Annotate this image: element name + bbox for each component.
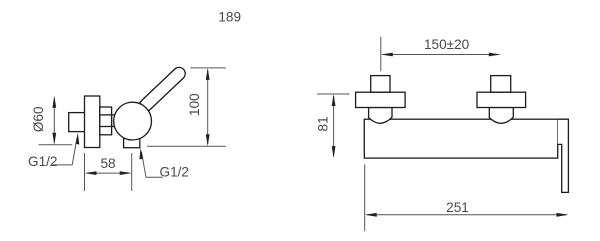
- body bar (front view): [364, 119, 557, 158]
- valve body circle (left view): [114, 102, 152, 140]
- svg-text:150±20: 150±20: [424, 37, 470, 52]
- union nut left (front view): [371, 76, 390, 93]
- svg-text:100: 100: [187, 93, 202, 116]
- connection nut (left view): [100, 107, 115, 135]
- svg-text:Ø60: Ø60: [31, 106, 46, 132]
- dimension 100 (left view height): [147, 68, 226, 146]
- svg-text:G1/2: G1/2: [160, 164, 189, 179]
- inlet union G1/2 (left view): [69, 113, 85, 132]
- end cap and diverter stem (right end): [558, 119, 569, 192]
- union nut right (front view): [491, 76, 511, 93]
- dimension 251 (overall body length): [365, 164, 567, 231]
- lever handle (left view): [137, 65, 188, 114]
- svg-text:58: 58: [100, 156, 115, 171]
- escutcheon right (front view): [477, 92, 526, 107]
- svg-text:G1/2: G1/2: [28, 154, 57, 169]
- wall escutcheon flange (left view): [85, 96, 100, 148]
- svg-text:81: 81: [316, 116, 331, 131]
- outlet stub (left view, bottom G1/2 outlet): [124, 139, 140, 148]
- svg-text:251: 251: [446, 200, 469, 215]
- leader G1/2 left (inlet thread): [53, 138, 78, 165]
- leader G1/2 right (outlet thread): [142, 152, 164, 177]
- connector arc left union: [369, 108, 392, 124]
- dimension Ø60 (left view escutcheon diameter): [39, 98, 73, 145]
- connector arc right union: [489, 108, 513, 124]
- dimension 81 (wall plate to body bottom): [317, 94, 350, 156]
- svg-text:189: 189: [218, 10, 241, 25]
- overall dimension text 189 (top): [218, 10, 241, 25]
- dimension 150±20 (union centers): [381, 37, 499, 72]
- escutcheon left (front view): [356, 92, 406, 107]
- dimension 58 (left view): [85, 153, 132, 191]
